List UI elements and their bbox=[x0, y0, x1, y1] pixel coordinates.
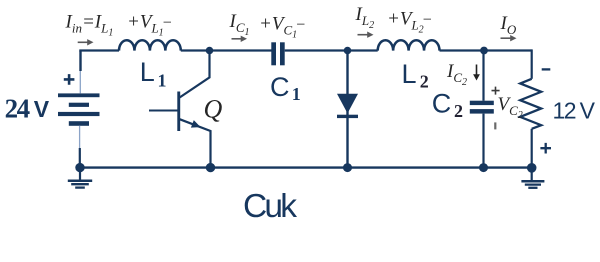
svg-text:V: V bbox=[34, 96, 50, 122]
svg-text:IC2: IC2 bbox=[446, 61, 467, 88]
svg-text:IC1: IC1 bbox=[229, 11, 250, 38]
svg-text:2: 2 bbox=[454, 101, 463, 121]
label minus dash below VC2 bbox=[494, 122, 496, 129]
wire top rail segment 4 bbox=[440, 49, 532, 51]
label VC2 bbox=[498, 94, 523, 121]
wire battery bottom lead bbox=[79, 126, 81, 168]
label Iin = IL1 bbox=[65, 12, 114, 39]
capacitor C1 bbox=[271, 42, 284, 65]
inductor L2 bbox=[378, 40, 440, 50]
svg-text:2: 2 bbox=[420, 71, 429, 91]
svg-text:IO: IO bbox=[500, 13, 517, 37]
arrow IO bbox=[501, 35, 517, 41]
svg-text:+VL1−: +VL1− bbox=[127, 12, 172, 39]
svg-text:Iin=IL1: Iin=IL1 bbox=[65, 12, 114, 39]
node dot bottom right bbox=[527, 163, 537, 173]
svg-text:C: C bbox=[270, 72, 290, 102]
node dot bottom emitter bbox=[206, 163, 215, 172]
transistor Q base bar bbox=[177, 92, 180, 132]
wire right vertical to resistor bbox=[531, 49, 533, 78]
resistor load R (12V) bbox=[520, 79, 541, 129]
node dot top diode bbox=[344, 47, 352, 55]
svg-text:+VL2−: +VL2− bbox=[387, 9, 432, 36]
transistor Q collector bbox=[180, 51, 210, 98]
label IL2 bbox=[355, 4, 375, 31]
diode D1 triangle and cathode bar bbox=[337, 94, 358, 118]
transistor Q emitter with arrow bbox=[180, 119, 211, 167]
diode D1 vertical wire bbox=[346, 51, 348, 168]
svg-text:L: L bbox=[140, 57, 155, 87]
transistor Q base wire bbox=[149, 109, 178, 111]
node dot top C2 bbox=[480, 47, 488, 55]
label C2 bbox=[432, 88, 463, 121]
battery B1 plates bbox=[58, 93, 100, 125]
capacitor C2 leads bbox=[482, 51, 484, 168]
node dot top collector bbox=[206, 47, 214, 55]
label C1 bbox=[270, 72, 301, 104]
label L1 bbox=[140, 57, 167, 91]
node dot bottom diode bbox=[343, 163, 352, 172]
arrow IL2 bbox=[358, 32, 374, 38]
label +VC1- bbox=[259, 14, 306, 41]
svg-text:C: C bbox=[432, 88, 452, 118]
wire top rail segment 3 bbox=[285, 49, 378, 51]
svg-text:1: 1 bbox=[292, 84, 301, 104]
svg-text:Q: Q bbox=[204, 95, 223, 124]
label plus above C2 bbox=[492, 87, 500, 95]
label IO bbox=[500, 13, 517, 37]
wire top rail segment 1 bbox=[79, 49, 119, 51]
label 12V bbox=[553, 97, 596, 123]
svg-text:IL2: IL2 bbox=[355, 4, 375, 31]
ground right bbox=[521, 168, 544, 188]
svg-text:VC2: VC2 bbox=[498, 94, 523, 121]
node dot bottom battery bbox=[75, 163, 84, 172]
arrow IC1 bbox=[232, 36, 248, 42]
svg-text:L: L bbox=[402, 59, 417, 89]
svg-text:24: 24 bbox=[5, 93, 31, 123]
arrow Iin bbox=[78, 39, 94, 45]
ground left bbox=[68, 168, 92, 188]
svg-text:+VC1−: +VC1− bbox=[259, 14, 306, 41]
node dot bottom C2 bbox=[479, 163, 488, 172]
label minus above resistor bbox=[542, 68, 551, 70]
label Q bbox=[204, 95, 223, 124]
svg-text:1: 1 bbox=[158, 70, 167, 90]
wire right vertical below resistor bbox=[531, 129, 533, 168]
label 24V bbox=[5, 93, 50, 123]
label Cuk bbox=[243, 188, 297, 225]
inductor L1 bbox=[119, 40, 181, 50]
capacitor C2 plates bbox=[470, 101, 494, 114]
label plus below resistor bbox=[540, 143, 551, 154]
svg-text:Cuk: Cuk bbox=[243, 188, 297, 225]
label L2 bbox=[402, 59, 429, 91]
label +VL1- bbox=[127, 12, 172, 39]
label IC2 and down arrow bbox=[446, 61, 480, 88]
label +VL2- bbox=[387, 9, 432, 36]
wire bottom rail bbox=[80, 166, 532, 168]
wire top rail segment 2 bbox=[181, 49, 272, 51]
svg-text:12 V: 12 V bbox=[553, 97, 596, 123]
label IC1 bbox=[229, 11, 250, 38]
battery plus sign bbox=[64, 74, 75, 85]
wire left vertical from top rail to battery bbox=[79, 51, 82, 94]
